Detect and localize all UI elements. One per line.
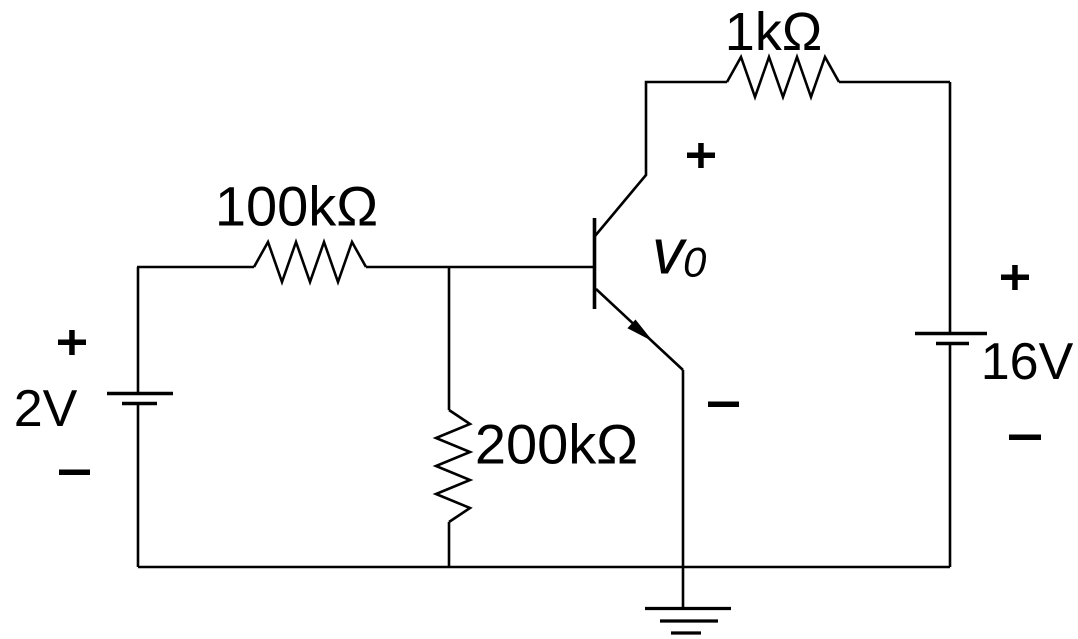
svg-text:1kΩ: 1kΩ <box>725 2 822 62</box>
svg-text:100kΩ: 100kΩ <box>215 175 378 238</box>
svg-text:0: 0 <box>683 239 707 286</box>
svg-text:2V: 2V <box>14 380 78 438</box>
svg-text:200kΩ: 200kΩ <box>475 413 638 476</box>
svg-text:16V: 16V <box>981 333 1074 391</box>
